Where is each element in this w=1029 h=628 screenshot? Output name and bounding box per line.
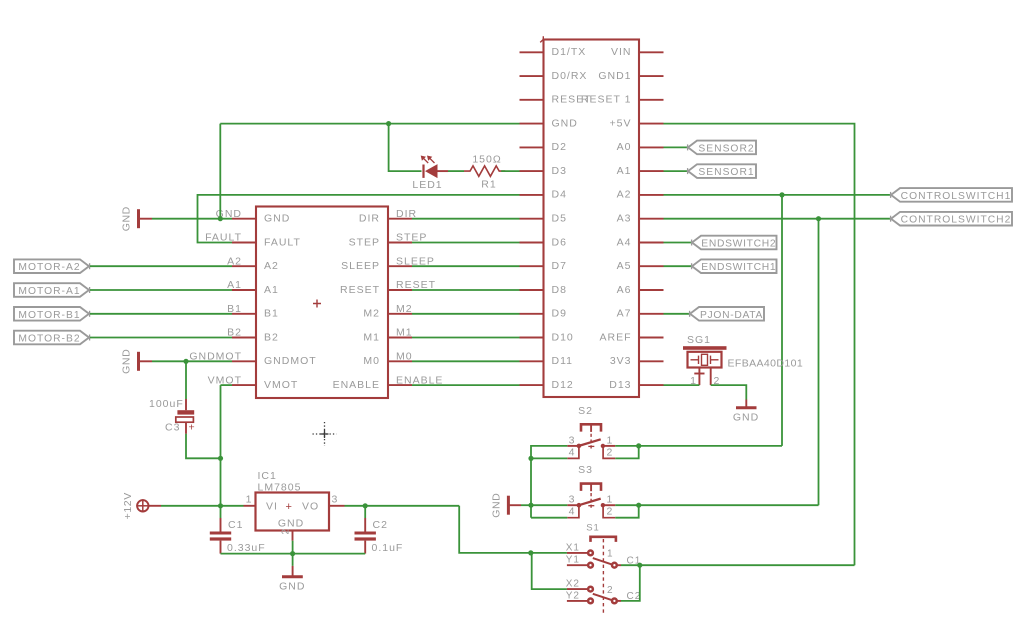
flag PJON-DATA xyxy=(690,307,764,321)
svg-text:D3: D3 xyxy=(552,165,567,177)
flag ENDSWITCH2 xyxy=(692,236,777,250)
wire LED to R1 xyxy=(448,170,464,172)
svg-text:DIR: DIR xyxy=(359,213,380,225)
capacitor C3 xyxy=(176,361,194,434)
resistor R1 xyxy=(464,166,505,176)
svg-text:SENSOR1: SENSOR1 xyxy=(698,167,754,178)
wire A3 to CONTROLSWITCH2 xyxy=(664,218,892,220)
svg-text:D10: D10 xyxy=(552,331,574,343)
svg-text:SLEEP: SLEEP xyxy=(341,260,380,272)
wire S3 gnd xyxy=(521,504,531,506)
driver pin B2 xyxy=(232,337,256,339)
nano pin D11 xyxy=(520,360,544,362)
svg-text:S2: S2 xyxy=(578,405,593,417)
svg-text:GND: GND xyxy=(278,518,304,530)
svg-text:S1: S1 xyxy=(586,523,600,534)
wire S3 right loop xyxy=(615,505,638,518)
driver pin GND xyxy=(232,218,256,220)
svg-text:FAULT: FAULT xyxy=(264,236,301,248)
svg-text:GNDMOT: GNDMOT xyxy=(264,355,317,367)
svg-text:D0/RX: D0/RX xyxy=(552,70,588,82)
svg-text:4: 4 xyxy=(569,506,576,518)
svg-text:B1: B1 xyxy=(264,308,279,320)
svg-text:2: 2 xyxy=(281,529,292,535)
svg-text:EFBAA40D101: EFBAA40D101 xyxy=(728,357,804,369)
wire M0 to nano xyxy=(412,360,520,362)
driver pin M2 xyxy=(388,313,412,315)
wire +12V to IC1 xyxy=(161,505,244,507)
nano pin D5 xyxy=(520,218,544,220)
IC driver outline xyxy=(256,207,388,399)
wire R1 to D3 xyxy=(501,170,519,172)
svg-text:M1: M1 xyxy=(396,327,413,339)
nano pin D4 xyxy=(520,194,544,196)
wire GND net xyxy=(152,218,232,220)
junction GND/driver xyxy=(218,216,223,221)
svg-text:A4: A4 xyxy=(617,236,632,248)
svg-text:D4: D4 xyxy=(552,189,567,201)
nano pin D2 xyxy=(520,146,544,148)
IC1 pin 3 xyxy=(329,505,345,507)
junction LED branch xyxy=(386,121,391,126)
svg-text:C3: C3 xyxy=(165,422,180,434)
nano pin D1/TX xyxy=(520,51,544,53)
nano pin D8 xyxy=(520,289,544,291)
svg-text:IC1: IC1 xyxy=(258,470,277,482)
svg-text:A6: A6 xyxy=(617,284,632,296)
wire A1 to SENSOR1 xyxy=(664,170,689,172)
driver pin B1 xyxy=(232,313,256,315)
svg-text:1: 1 xyxy=(607,549,614,560)
svg-text:D2: D2 xyxy=(552,141,567,153)
nano pin D9 xyxy=(520,313,544,315)
wire gnd row xyxy=(221,553,366,555)
wire S2 right loop xyxy=(615,446,638,459)
wire ENABLE to nano xyxy=(412,384,520,386)
svg-text:GND: GND xyxy=(279,581,305,593)
svg-text:M1: M1 xyxy=(363,331,380,343)
nano pin VIN xyxy=(639,51,664,53)
driver pin STEP xyxy=(388,242,412,244)
junction controlswitch2 xyxy=(816,216,821,221)
svg-text:C1: C1 xyxy=(228,519,243,531)
svg-text:D13: D13 xyxy=(609,379,631,391)
svg-text:GND1: GND1 xyxy=(598,70,631,82)
svg-text:M0: M0 xyxy=(396,351,413,363)
svg-text:PJON-DATA: PJON-DATA xyxy=(700,310,763,321)
nano pin GND1 xyxy=(639,75,664,77)
flag CONTROLSWITCH1 xyxy=(891,188,1012,202)
wire MOTOR-B2 xyxy=(90,337,232,339)
wire MOTOR-B1 xyxy=(90,313,232,315)
svg-text:GND: GND xyxy=(491,493,503,518)
svg-text:+: + xyxy=(189,422,195,434)
svg-text:GND: GND xyxy=(552,117,578,129)
svg-text:MOTOR-B2: MOTOR-B2 xyxy=(18,334,80,345)
svg-text:CONTROLSWITCH2: CONTROLSWITCH2 xyxy=(901,215,1012,226)
svg-text:SG1: SG1 xyxy=(687,334,711,346)
wire D13 to buzzer xyxy=(664,384,700,386)
switch S1 xyxy=(566,537,642,615)
nano pin RESET xyxy=(520,99,544,101)
svg-text:2: 2 xyxy=(607,585,614,596)
wire to S1 X1 xyxy=(459,506,567,553)
flag ENDSWITCH1 xyxy=(692,259,777,273)
wire S2 to S3 vertical xyxy=(530,458,532,517)
wire GNDMOT xyxy=(152,360,232,362)
ground symbol IC1 xyxy=(279,566,305,593)
svg-text:SENSOR2: SENSOR2 xyxy=(698,143,754,154)
nano pin D3 xyxy=(520,170,544,172)
svg-text:MOTOR-A1: MOTOR-A1 xyxy=(18,286,80,297)
capacitor C1 xyxy=(210,506,231,554)
svg-text:GND: GND xyxy=(121,206,133,231)
junction C3 bottom xyxy=(218,456,223,461)
wire A0 to SENSOR2 xyxy=(664,146,689,148)
driver pin M1 xyxy=(388,337,412,339)
regulator IC1 outline xyxy=(256,493,330,531)
wire +12V lead xyxy=(148,505,161,507)
wire S1 C1 to +5V xyxy=(621,564,855,566)
nano pin GND xyxy=(520,123,544,125)
switch S3 xyxy=(567,484,615,518)
wire A4 to ENDSWITCH2 xyxy=(664,242,693,244)
svg-text:ENDSWITCH1: ENDSWITCH1 xyxy=(701,262,776,273)
svg-text:C2: C2 xyxy=(373,519,388,531)
svg-text:ENDSWITCH2: ENDSWITCH2 xyxy=(701,239,776,250)
ground symbol S3 xyxy=(491,493,522,518)
nano pin A7 xyxy=(639,313,664,315)
nano pin A6 xyxy=(639,289,664,291)
wire S1 X2 loop xyxy=(532,553,567,589)
svg-text:+: + xyxy=(286,501,292,513)
svg-text:100uF: 100uF xyxy=(149,398,184,410)
flag SENSOR1 xyxy=(688,164,756,178)
svg-text:LED1: LED1 xyxy=(412,179,442,191)
nano pin AREF xyxy=(639,337,664,339)
IC nano origin mark xyxy=(540,36,543,42)
svg-text:A0: A0 xyxy=(617,141,632,153)
svg-text:3: 3 xyxy=(569,434,576,446)
wire STEP to nano xyxy=(412,242,520,244)
driver pin RESET xyxy=(388,289,412,291)
buzzer pin 1 xyxy=(698,368,700,385)
wire GND vertical to nano xyxy=(219,124,221,219)
svg-text:VMOT: VMOT xyxy=(264,379,298,391)
capacitor C2 xyxy=(355,506,376,554)
junction C2 top xyxy=(363,503,368,508)
junction S2 right xyxy=(636,443,641,448)
svg-text:A7: A7 xyxy=(617,308,632,320)
svg-text:A2: A2 xyxy=(264,260,279,272)
wire MOTOR-A2 xyxy=(90,265,232,267)
mouse cursor crosshair xyxy=(313,422,337,446)
svg-text:4: 4 xyxy=(569,446,576,458)
buzzer SG1 xyxy=(683,346,727,367)
wire S1 C2 loop xyxy=(621,565,640,601)
nano pin RESET 1 xyxy=(639,99,664,101)
svg-text:D5: D5 xyxy=(552,213,567,225)
flag SENSOR2 xyxy=(688,141,756,155)
svg-text:D11: D11 xyxy=(552,355,573,367)
junction gnd row xyxy=(290,551,295,556)
wire IC1 gnd down xyxy=(292,541,294,554)
wire M1 to nano xyxy=(412,337,520,339)
svg-text:2: 2 xyxy=(607,446,614,458)
nano pin D0/RX xyxy=(520,75,544,77)
junction S1 C1 xyxy=(637,563,642,568)
svg-text:1: 1 xyxy=(607,434,614,446)
driver pin ENABLE xyxy=(388,384,412,386)
svg-text:GND: GND xyxy=(121,349,133,374)
nano pin A2 xyxy=(639,194,664,196)
wire A5 to ENDSWITCH1 xyxy=(664,265,693,267)
switch S2 xyxy=(567,424,615,458)
svg-text:D6: D6 xyxy=(552,236,567,248)
wire controlswitch2 vertical xyxy=(818,219,820,506)
junction S3 right xyxy=(636,503,641,508)
wire M2 to nano xyxy=(412,313,520,315)
wire C3 to VMOT net xyxy=(186,434,221,459)
driver pin SLEEP xyxy=(388,265,412,267)
svg-text:RESET 1: RESET 1 xyxy=(581,94,632,106)
driver pin DIR xyxy=(388,218,412,220)
svg-text:A3: A3 xyxy=(617,213,632,225)
svg-text:Y2: Y2 xyxy=(566,591,580,602)
nano pin A4 xyxy=(639,242,664,244)
svg-text:MOTOR-A2: MOTOR-A2 xyxy=(18,262,80,273)
svg-text:+12V: +12V xyxy=(122,492,134,519)
ground symbol left lower xyxy=(121,349,153,374)
svg-text:X2: X2 xyxy=(566,579,580,590)
wire S3 left loop xyxy=(531,505,567,518)
driver pin A2 xyxy=(232,265,256,267)
svg-text:D9: D9 xyxy=(552,308,567,320)
buzzer pin 2 xyxy=(710,368,712,385)
wire to LED xyxy=(389,124,422,172)
wire VMOT vertical xyxy=(220,385,222,506)
svg-text:S3: S3 xyxy=(578,464,593,476)
wire RESET to nano xyxy=(412,289,520,291)
IC1 pin 1 xyxy=(244,505,256,507)
wire +5V rail xyxy=(664,124,855,566)
svg-text:3: 3 xyxy=(332,493,339,505)
nano pin D6 xyxy=(520,242,544,244)
svg-text:Y1: Y1 xyxy=(566,554,580,565)
svg-text:1: 1 xyxy=(246,493,253,505)
nano pin D12 xyxy=(520,384,544,386)
svg-text:0.1uF: 0.1uF xyxy=(372,542,404,554)
junction S3 left xyxy=(528,503,533,508)
svg-text:X1: X1 xyxy=(566,543,580,554)
flag MOTOR-B2 xyxy=(14,331,89,345)
wire S2 to controlswitch1 xyxy=(639,445,782,447)
svg-text:3V3: 3V3 xyxy=(610,355,632,367)
wire DIR to nano xyxy=(412,218,520,220)
svg-text:D7: D7 xyxy=(552,260,567,272)
svg-text:VI: VI xyxy=(266,500,278,512)
nano pin D13 xyxy=(639,384,664,386)
wire buzzer to ground xyxy=(711,385,747,399)
svg-text:+5V: +5V xyxy=(610,117,632,129)
IC driver origin cross xyxy=(313,300,321,308)
svg-text:R1: R1 xyxy=(481,179,496,191)
svg-text:B2: B2 xyxy=(264,331,279,343)
wire IC1 out xyxy=(345,505,460,507)
svg-text:A5: A5 xyxy=(617,260,632,272)
svg-text:VO: VO xyxy=(302,500,319,512)
wire controlswitch1 vertical xyxy=(781,195,783,446)
IC1 pin 2 gnd xyxy=(292,531,294,541)
svg-text:A2: A2 xyxy=(617,189,632,201)
wire A2 to CONTROLSWITCH1 xyxy=(664,194,892,196)
nano pin D7 xyxy=(520,265,544,267)
wire VMOT stub xyxy=(221,384,233,386)
nano pin 3V3 xyxy=(639,360,664,362)
LED LED1 xyxy=(421,156,448,179)
nano pin +5V xyxy=(639,123,664,125)
junction C3 branch xyxy=(183,359,188,364)
driver pin A1 xyxy=(232,289,256,291)
nano pin D10 xyxy=(520,337,544,339)
svg-text:MOTOR-B1: MOTOR-B1 xyxy=(18,310,80,321)
wire A7 to PJON-DATA xyxy=(664,313,691,315)
driver pin VMOT xyxy=(232,384,256,386)
svg-text:A1: A1 xyxy=(264,284,279,296)
IC nano outline xyxy=(544,40,640,398)
wire MOTOR-A1 xyxy=(90,289,232,291)
svg-text:3: 3 xyxy=(569,494,576,506)
svg-text:AREF: AREF xyxy=(599,331,631,343)
flag MOTOR-A2 xyxy=(14,259,89,273)
flag MOTOR-A1 xyxy=(14,283,89,297)
svg-text:D12: D12 xyxy=(552,379,574,391)
svg-text:D8: D8 xyxy=(552,284,567,296)
svg-text:GND: GND xyxy=(264,213,290,225)
wire GND horizontal to nano GND xyxy=(220,123,519,125)
svg-text:0.33uF: 0.33uF xyxy=(227,542,266,554)
svg-text:M2: M2 xyxy=(396,303,413,315)
svg-text:RESET: RESET xyxy=(340,284,380,296)
ground symbol buzzer xyxy=(733,400,759,424)
nano pin A3 xyxy=(639,218,664,220)
driver pin FAULT xyxy=(232,242,256,244)
nano pin A1 xyxy=(639,170,664,172)
wire FAULT to D4 xyxy=(198,195,520,243)
svg-text:M2: M2 xyxy=(363,308,380,320)
driver pin M0 xyxy=(388,360,412,362)
flag MOTOR-B1 xyxy=(14,307,89,321)
driver pin GNDMOT xyxy=(232,360,256,362)
svg-text:VIN: VIN xyxy=(611,46,632,58)
wire S2 left loop xyxy=(531,446,567,459)
svg-text:STEP: STEP xyxy=(349,236,380,248)
svg-text:2: 2 xyxy=(607,506,614,518)
junction S2 left xyxy=(528,456,533,461)
nano pin A5 xyxy=(639,265,664,267)
svg-text:CONTROLSWITCH1: CONTROLSWITCH1 xyxy=(901,191,1012,202)
junction controlswitch1 xyxy=(779,192,784,197)
svg-text:150Ω: 150Ω xyxy=(472,154,501,166)
junction +12V xyxy=(218,503,223,508)
wire SLEEP to nano xyxy=(412,265,520,267)
svg-text:M0: M0 xyxy=(363,355,380,367)
svg-text:1: 1 xyxy=(607,494,614,506)
flag CONTROLSWITCH2 xyxy=(891,212,1012,226)
connector +12V xyxy=(122,492,150,519)
svg-text:GND: GND xyxy=(733,412,759,424)
junction S1 left xyxy=(528,550,533,555)
svg-text:ENABLE: ENABLE xyxy=(333,379,380,391)
wire S3 to controlswitch2 xyxy=(639,504,819,506)
nano pin A0 xyxy=(639,146,664,148)
svg-text:D1/TX: D1/TX xyxy=(552,46,587,58)
ground symbol left upper xyxy=(121,206,153,231)
svg-text:A1: A1 xyxy=(617,165,632,177)
